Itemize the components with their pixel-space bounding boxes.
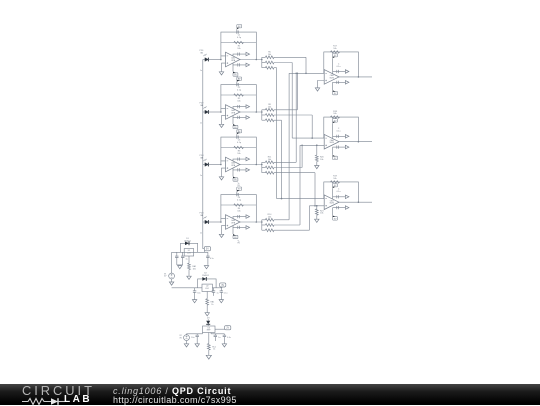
wire SUM3 non-inverting bus bbox=[309, 205, 324, 207]
wire flag VA to rail bbox=[203, 251, 205, 253]
resistor R20 (SUM2 bias) bbox=[315, 155, 318, 161]
wire triplet 2 row 2 stub bbox=[274, 114, 312, 116]
VCC supply flag OA3 bbox=[237, 130, 242, 133]
wire lead R11 bbox=[262, 161, 266, 163]
VCC supply flag SUM2 bbox=[333, 119, 338, 122]
net flag VA (stage A) bbox=[203, 248, 205, 250]
wire non-inverting lead OA1 bbox=[222, 63, 226, 72]
wire lead R5 bbox=[262, 56, 266, 58]
resistor R19 (feedback SUM3) bbox=[331, 181, 340, 183]
ground SUM2 bias bbox=[315, 166, 319, 169]
ground CB3 bbox=[219, 300, 223, 303]
svg-text:10k: 10k bbox=[268, 217, 271, 219]
svg-text:0.1p: 0.1p bbox=[237, 142, 242, 144]
resistor R21 (SUM3 bias) bbox=[315, 209, 318, 215]
wire T3.R11 to SUM1 vertical bbox=[295, 73, 297, 162]
node inverting input junction OA2 bbox=[220, 111, 222, 113]
wire bypass branch lower OA4 bbox=[233, 226, 246, 228]
resistor R13 bbox=[265, 171, 274, 174]
svg-text:10k: 10k bbox=[268, 107, 271, 109]
svg-text:OPA: OPA bbox=[231, 112, 236, 115]
photodiode PD2 bbox=[203, 111, 205, 113]
wire T1.R5 to SUM1 vertical bbox=[305, 57, 307, 73]
wire photodiode common vertical net bbox=[202, 60, 204, 249]
voltage source V2 bbox=[184, 335, 190, 341]
op-amp SUM1 bbox=[324, 70, 339, 85]
wire VEE stub OA2 bbox=[232, 117, 234, 124]
port arrow lower OA2 bbox=[246, 116, 250, 120]
wire triplet 4 row 1 stub bbox=[274, 219, 289, 221]
ground OA4 non-inverting input bbox=[219, 234, 223, 237]
wire triplet 1 left bus bbox=[261, 57, 263, 67]
diode D1 bbox=[185, 242, 189, 246]
resistor RB1 bbox=[206, 299, 209, 305]
wire bypass branch upper OA2 bbox=[233, 107, 246, 109]
svg-text:1N4001: 1N4001 bbox=[202, 275, 210, 277]
resistor R9 bbox=[265, 114, 274, 117]
capacitor bypass lower OA3 bbox=[238, 168, 240, 171]
wire diode D1 branch bbox=[181, 243, 198, 252]
wire stage C rail bbox=[187, 333, 203, 335]
wire PD4 to op-amp input bbox=[208, 221, 221, 223]
ground SUM1 bbox=[315, 88, 319, 91]
node triplet 4 input bbox=[261, 221, 263, 223]
VEE supply flag OA4 bbox=[233, 235, 238, 238]
node inverting input junction OA3 bbox=[220, 164, 222, 166]
wire VCC stub SUM2 bbox=[332, 123, 334, 138]
capacitor C1 (feedback) bbox=[237, 31, 238, 34]
capacitor CA2 bbox=[182, 252, 184, 256]
capacitor CA3 bbox=[207, 252, 209, 256]
wire VCC stub OA4 bbox=[236, 192, 238, 195]
wire inverting input lead OA2 bbox=[221, 108, 226, 112]
regulator U1 (stage A box) bbox=[184, 249, 194, 256]
wire bypass upper SUM3 bbox=[333, 196, 346, 198]
wire triplet 1 row 1 stub bbox=[274, 56, 306, 58]
svg-text:10u: 10u bbox=[197, 292, 200, 294]
capacitor bypass upper SUM2 bbox=[337, 135, 339, 138]
ground OA2 non-inverting input bbox=[219, 124, 223, 127]
svg-text:0.1p: 0.1p bbox=[237, 200, 242, 202]
wire lead R16 bbox=[262, 229, 266, 231]
wire triplet 4 left bus bbox=[261, 220, 263, 230]
resistor R8 bbox=[265, 108, 274, 111]
wire inverting input lead OA1 bbox=[221, 56, 226, 60]
svg-text:OPA: OPA bbox=[231, 222, 236, 225]
VEE supply flag SUM2 bbox=[333, 156, 338, 159]
svg-text:1u: 1u bbox=[217, 292, 219, 294]
node SUM3 plus junction bbox=[316, 205, 318, 207]
capacitor bypass upper OA3 bbox=[238, 158, 240, 161]
wire U3 bottom branch bbox=[208, 333, 210, 344]
VCC supply flag OA4 bbox=[237, 187, 242, 190]
resistor R2 (feedback) bbox=[234, 94, 244, 96]
node feedback/output junction OA3 bbox=[255, 164, 257, 166]
resistor R4 (feedback) bbox=[234, 204, 244, 206]
wire feedback loop OA3 bbox=[221, 137, 256, 164]
node triplet 3 input bbox=[261, 164, 263, 166]
capacitor CC2 bbox=[214, 334, 216, 335]
wire VEE stub SUM1 bbox=[332, 82, 334, 90]
resistor RA1 bbox=[188, 263, 191, 269]
node SUM2 plus junction bbox=[316, 145, 318, 147]
wire triplet 1 row 2 stub bbox=[274, 62, 292, 64]
footer url text bbox=[113, 395, 237, 405]
resistor R15 bbox=[265, 224, 274, 227]
op-amp OA1 bbox=[226, 52, 241, 67]
svg-text:10k: 10k bbox=[320, 213, 323, 215]
wire triplet 3 left bus bbox=[261, 162, 263, 172]
wire bypass branch lower OA3 bbox=[233, 168, 246, 170]
svg-text:SUM: SUM bbox=[329, 203, 334, 205]
node output junction SUM1 bbox=[358, 76, 360, 78]
wire triplet 3 row 3 stub bbox=[274, 172, 315, 174]
op-amp OA3 bbox=[226, 157, 241, 172]
net flag VB (stage B) bbox=[221, 286, 223, 289]
svg-text:10k: 10k bbox=[237, 153, 240, 155]
svg-text:10k: 10k bbox=[320, 159, 323, 161]
port arrow lower SUM3 bbox=[345, 206, 349, 210]
wire bypass lower SUM2 bbox=[333, 146, 346, 148]
resistor R6 bbox=[265, 61, 274, 64]
wire D3 to U3 bbox=[207, 324, 209, 326]
wire VCC stub OA1 bbox=[236, 29, 238, 32]
regulator U3 (stage C box) bbox=[203, 326, 216, 333]
svg-text:0.1u: 0.1u bbox=[337, 66, 341, 68]
wire T1.R6 to SUM2 vertical bbox=[291, 63, 293, 139]
port arrow upper SUM3 bbox=[345, 195, 349, 199]
resistor R11 bbox=[265, 161, 274, 164]
capacitor CB2 bbox=[213, 288, 215, 291]
wire lead R14 bbox=[262, 219, 266, 221]
capacitor CC1 bbox=[196, 334, 198, 335]
resistor RC1 bbox=[207, 344, 210, 350]
wire T2.R10 to SUM3 vertical bbox=[281, 120, 283, 198]
capacitor C2 (feedback) bbox=[237, 83, 238, 86]
node triplet 1 input bbox=[261, 59, 263, 61]
wire bypass branch lower OA2 bbox=[233, 116, 246, 118]
wire lead R6 bbox=[262, 62, 266, 64]
wire bypass lower SUM1 bbox=[333, 81, 346, 83]
port arrow lower OA1 bbox=[246, 63, 250, 67]
wire VEE stub OA3 bbox=[232, 170, 234, 177]
wire triplet 3 row 2 stub bbox=[274, 167, 302, 169]
wire VEE stub OA1 bbox=[232, 65, 234, 72]
wire T4.R15 to SUM2 vertical bbox=[299, 145, 301, 225]
wire T2.R9 to SUM2 vertical bbox=[311, 115, 313, 138]
wire VCC stub SUM3 bbox=[332, 188, 334, 199]
wire VEE stub OA4 bbox=[232, 227, 234, 234]
wire lead R13 bbox=[262, 172, 266, 174]
ground CC1 bbox=[195, 344, 199, 347]
VCC supply flag OA2 bbox=[237, 77, 242, 80]
ground V1 bbox=[169, 282, 173, 285]
svg-text:10k: 10k bbox=[333, 48, 336, 50]
wire output OA4 bbox=[240, 221, 262, 223]
capacitor bypass upper OA4 bbox=[238, 215, 240, 218]
resistor R7 bbox=[265, 66, 274, 69]
wire U2 bottom branch bbox=[206, 292, 208, 299]
svg-text:1n: 1n bbox=[200, 70, 202, 72]
resistor R3 (feedback) bbox=[234, 146, 244, 148]
wire V2 top bbox=[186, 333, 188, 336]
wire VCC stub OA2 bbox=[236, 82, 238, 85]
wire T2.R8 to SUM1 vertical bbox=[296, 73, 298, 110]
svg-text:1k: 1k bbox=[211, 304, 213, 306]
wire V1 bottom bbox=[171, 279, 173, 282]
node output junction SUM2 bbox=[358, 141, 360, 143]
ground OA3 non-inverting input bbox=[219, 177, 223, 180]
op-amp SUM3 bbox=[324, 195, 339, 210]
svg-text:0.1u: 0.1u bbox=[224, 292, 228, 294]
node output junction SUM3 bbox=[358, 201, 360, 203]
port arrow lower SUM2 bbox=[345, 145, 349, 149]
op-amp SUM2 bbox=[324, 134, 339, 149]
ground RA1 bbox=[187, 276, 191, 279]
wire SUM1 non-inverting to ground bbox=[318, 81, 325, 88]
node feedback/output junction OA4 bbox=[255, 221, 257, 223]
wire VCC stub SUM1 bbox=[332, 58, 334, 73]
photodiode PD1 bbox=[203, 59, 205, 61]
VEE supply flag OA3 bbox=[233, 178, 238, 181]
svg-text:10k: 10k bbox=[268, 54, 271, 56]
port arrow lower SUM1 bbox=[345, 81, 349, 85]
VEE supply flag OA2 bbox=[233, 125, 238, 128]
resistor R12 bbox=[265, 166, 274, 169]
wire triplet 4 row 3 stub bbox=[274, 229, 309, 231]
capacitor bypass upper SUM3 bbox=[337, 195, 339, 198]
capacitor C4 (feedback) bbox=[237, 193, 238, 196]
wire feedback loop OA2 bbox=[221, 85, 256, 112]
svg-text:OPA: OPA bbox=[231, 164, 236, 167]
svg-text:1n: 1n bbox=[200, 175, 202, 177]
svg-text:2V: 2V bbox=[226, 327, 229, 330]
svg-text:LDO: LDO bbox=[187, 253, 191, 255]
VEE supply flag SUM1 bbox=[333, 91, 338, 94]
resistor R16 bbox=[265, 229, 274, 232]
VCC supply flag OA1 bbox=[237, 25, 242, 28]
resistor R14 bbox=[265, 218, 274, 221]
VEE supply flag SUM3 bbox=[333, 217, 338, 220]
ground RB1 bbox=[205, 313, 209, 316]
capacitor CB1 bbox=[194, 288, 196, 291]
port arrow upper SUM1 bbox=[345, 70, 349, 74]
node triplet 2 input bbox=[261, 111, 263, 113]
ground V2 bbox=[184, 344, 188, 347]
resistor R18 (feedback SUM2) bbox=[331, 116, 340, 118]
port arrow upper OA4 bbox=[246, 215, 250, 219]
wire T4.R16 to SUM3 vertical bbox=[308, 206, 310, 230]
wire lead R7 bbox=[262, 67, 266, 69]
wire SUM2 inverting bus bbox=[292, 137, 324, 139]
wire PD1 to op-amp input bbox=[208, 59, 221, 61]
capacitor bypass upper OA1 bbox=[238, 53, 240, 56]
wire D3 top stub bbox=[207, 319, 209, 321]
svg-text:5V: 5V bbox=[206, 248, 209, 251]
svg-text:1u: 1u bbox=[186, 259, 188, 261]
capacitor bypass lower OA4 bbox=[238, 226, 240, 229]
svg-text:D3: D3 bbox=[207, 318, 210, 320]
wire R20 to ground bbox=[316, 162, 318, 166]
resistor R5 bbox=[265, 56, 274, 59]
capacitor CA1 bbox=[176, 252, 178, 256]
wire lead R10 bbox=[262, 119, 266, 121]
svg-text:0.1p: 0.1p bbox=[237, 37, 242, 39]
svg-text:SUM: SUM bbox=[329, 142, 334, 144]
wire inverting input lead OA4 bbox=[221, 218, 226, 222]
ground CA3 bbox=[204, 266, 208, 269]
wire feedback loop SUM1 bbox=[324, 52, 359, 77]
svg-text:1k: 1k bbox=[213, 349, 215, 351]
diode D2 bbox=[202, 277, 206, 281]
svg-text:10u: 10u bbox=[191, 337, 194, 339]
capacitor CC3 bbox=[223, 334, 225, 335]
wire PD3 to op-amp input bbox=[208, 164, 221, 166]
wire lead R12 bbox=[262, 167, 266, 169]
wire triplet 4 row 2 stub bbox=[274, 224, 300, 226]
regulator U2 (stage B box) bbox=[202, 284, 212, 291]
svg-text:REF: REF bbox=[207, 330, 212, 332]
wire lead R9 bbox=[262, 114, 266, 116]
wire bypass branch upper OA3 bbox=[233, 159, 246, 161]
svg-text:10k: 10k bbox=[237, 101, 240, 103]
wire feedback loop SUM2 bbox=[324, 117, 359, 142]
wire feedback loop SUM3 bbox=[324, 182, 359, 202]
node feedback/output junction OA2 bbox=[255, 111, 257, 113]
port arrow upper OA2 bbox=[246, 105, 250, 109]
svg-text:0.1u: 0.1u bbox=[337, 191, 341, 193]
wire triplet 3 row 1 stub bbox=[274, 161, 296, 163]
capacitor bypass lower SUM3 bbox=[337, 206, 339, 209]
svg-text:10k: 10k bbox=[237, 211, 240, 213]
wire triplet 2 left bus bbox=[261, 110, 263, 120]
capacitor C3 (feedback) bbox=[237, 136, 238, 139]
wire triplet 1 row 3 stub bbox=[274, 67, 277, 69]
wire bypass upper SUM1 bbox=[333, 71, 346, 73]
svg-text:SUM: SUM bbox=[329, 77, 334, 79]
op-amp OA4 bbox=[226, 215, 241, 230]
capacitor bypass lower OA2 bbox=[238, 116, 240, 119]
capacitor bypass lower SUM2 bbox=[337, 146, 339, 149]
net flag VC (stage C) bbox=[215, 328, 225, 330]
footer title text bbox=[113, 386, 231, 396]
svg-text:10k: 10k bbox=[268, 159, 271, 161]
wire inverting input lead OA3 bbox=[221, 161, 226, 165]
wire stage B rail bbox=[172, 287, 202, 289]
ground RC1 bbox=[206, 355, 211, 359]
wire SUM2 non-inverting resistor stub bbox=[316, 145, 318, 155]
wire triplet 2 row 3 stub bbox=[274, 119, 282, 121]
ground CC3 bbox=[222, 344, 226, 347]
wire bypass branch upper OA1 bbox=[233, 54, 246, 56]
svg-text:0.1u: 0.1u bbox=[210, 258, 214, 260]
ground stage A caps bbox=[178, 266, 182, 269]
wire output SUM3 bbox=[339, 201, 372, 203]
wire output SUM2 bbox=[339, 141, 372, 143]
wire feedback loop OA4 bbox=[221, 195, 256, 222]
wire SUM1 inverting bus bbox=[289, 72, 324, 74]
photodiode PD3 bbox=[203, 164, 205, 166]
ground CB1 bbox=[192, 300, 196, 303]
capacitor bypass upper SUM1 bbox=[337, 70, 339, 73]
port arrow upper OA1 bbox=[246, 52, 250, 56]
capacitor bypass upper OA2 bbox=[238, 105, 240, 108]
wire triplet 2 row 1 stub bbox=[274, 109, 297, 111]
wire CA1/CA2 join bbox=[177, 264, 183, 266]
svg-text:1n: 1n bbox=[200, 232, 202, 234]
wire VCC stub OA3 bbox=[236, 134, 238, 137]
capacitor bypass lower SUM1 bbox=[337, 81, 339, 84]
op-amp OA2 bbox=[226, 105, 241, 120]
wire SUM3 non-inverting resistor stub bbox=[316, 206, 318, 209]
wire non-inverting lead OA3 bbox=[222, 168, 226, 177]
wire non-inverting lead OA4 bbox=[222, 226, 226, 235]
wire feedback loop OA1 bbox=[221, 32, 256, 59]
wire stage A rail bbox=[172, 251, 208, 253]
wire T4.R14 to SUM1 vertical bbox=[288, 73, 290, 220]
resistor R17 (feedback SUM1) bbox=[331, 51, 340, 53]
node inverting input junction OA1 bbox=[220, 59, 222, 61]
wire RA1 to ground bbox=[188, 270, 190, 277]
ground SUM3 bias bbox=[315, 219, 319, 222]
wire output OA2 bbox=[240, 111, 262, 113]
resistor R1 (feedback) bbox=[234, 41, 244, 43]
wire RB1 to ground bbox=[206, 305, 208, 313]
svg-text:9V: 9V bbox=[237, 243, 240, 245]
capacitor bypass lower OA1 bbox=[238, 63, 240, 66]
wire output SUM1 bbox=[339, 76, 372, 78]
wire lead R8 bbox=[262, 109, 266, 111]
svg-text:OPA: OPA bbox=[231, 59, 236, 62]
wire output OA1 bbox=[240, 59, 262, 61]
node inverting input junction OA4 bbox=[220, 221, 222, 223]
wire bypass branch lower OA1 bbox=[233, 63, 246, 65]
diode D3 (vertical) bbox=[206, 321, 210, 325]
svg-text:LDO: LDO bbox=[205, 288, 209, 290]
svg-text:10k: 10k bbox=[333, 178, 336, 180]
wire VEE stub SUM3 bbox=[332, 208, 334, 216]
port arrow lower OA4 bbox=[246, 226, 250, 230]
wire T3.R13 to SUM3 vertical bbox=[314, 173, 316, 206]
logo diode bbox=[51, 398, 58, 405]
wire R21 to ground bbox=[316, 215, 318, 219]
ground OA1 non-inverting input bbox=[219, 72, 223, 75]
wire T1.R7 to SUM3 vertical bbox=[276, 68, 278, 199]
svg-text:10k: 10k bbox=[333, 113, 336, 115]
svg-text:0.1p: 0.1p bbox=[237, 90, 242, 92]
wire bypass upper SUM2 bbox=[333, 135, 346, 137]
VEE supply flag OA1 bbox=[233, 73, 238, 76]
svg-text:5V: 5V bbox=[164, 276, 167, 278]
wire T3.R12 to SUM2 vertical bbox=[301, 145, 303, 167]
port arrow lower OA3 bbox=[246, 168, 250, 172]
wire RC1 to ground bbox=[208, 350, 210, 355]
svg-text:100: 100 bbox=[193, 268, 196, 270]
wire bypass branch upper OA4 bbox=[233, 217, 246, 219]
CircuitLab logo bbox=[22, 385, 95, 396]
wire bypass lower SUM3 bbox=[333, 207, 346, 209]
voltage source V1 bbox=[169, 273, 175, 279]
wire V1 top bbox=[171, 252, 173, 273]
wire lead R15 bbox=[262, 224, 266, 226]
svg-text:1n: 1n bbox=[200, 122, 202, 124]
resistor R10 bbox=[265, 119, 274, 122]
wire non-inverting lead OA2 bbox=[222, 116, 226, 125]
wire VEE stub SUM2 bbox=[332, 147, 334, 155]
wire diode D2 branch bbox=[198, 279, 217, 288]
VCC supply flag SUM3 bbox=[333, 184, 338, 187]
port arrow upper SUM2 bbox=[345, 135, 349, 139]
